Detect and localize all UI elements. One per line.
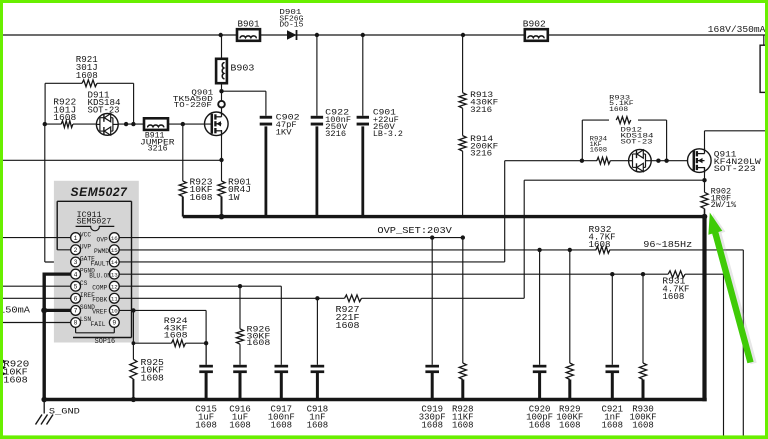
svg-text:OVP: OVP — [97, 237, 108, 244]
svg-text:B901: B901 — [238, 19, 260, 29]
wire: OVP row pin 16 — [119, 235, 465, 239]
node: 168V/350mA label — [708, 24, 766, 35]
wire: PGND thick stub pin 4 — [43, 273, 76, 276]
svg-text:1608: 1608 — [195, 420, 217, 430]
op-amp U1 IC911 body outline — [57, 201, 131, 346]
svg-text:3216: 3216 — [148, 144, 168, 154]
resistor R902 — [701, 188, 736, 217]
svg-text:1608: 1608 — [589, 240, 611, 250]
resistor R925 — [130, 310, 164, 402]
svg-text:B903: B903 — [230, 63, 254, 73]
svg-text:150mA: 150mA — [0, 304, 30, 315]
svg-text:7: 7 — [74, 308, 78, 315]
svg-text:1608: 1608 — [229, 420, 251, 430]
svg-text:SEM5027: SEM5027 — [71, 185, 129, 199]
wire: source column Q901 — [219, 130, 223, 181]
svg-text:11: 11 — [111, 296, 118, 303]
capacitor C919 — [419, 238, 446, 431]
svg-text:1608: 1608 — [452, 420, 474, 430]
wire: PWMD row pin 15 — [119, 248, 743, 436]
svg-text:168V/350mA: 168V/350mA — [708, 24, 766, 35]
wire: 168V top rail — [0, 33, 768, 37]
svg-text:1: 1 — [74, 235, 78, 242]
capacitor C922 — [311, 35, 351, 217]
svg-text:FAIL: FAIL — [91, 321, 106, 328]
resistor R932 — [589, 225, 616, 254]
wire: LSN row pin 8 — [0, 322, 76, 324]
svg-text:1608: 1608 — [141, 373, 164, 383]
svg-text:1W: 1W — [228, 193, 240, 203]
wire: R924 branch row — [132, 341, 207, 345]
annotation arrow pointing at R902 — [708, 213, 756, 365]
wire: secondary ground rail (thick bottom) — [41, 397, 706, 403]
svg-text:FAULT: FAULT — [91, 260, 110, 267]
svg-text:1608: 1608 — [559, 420, 581, 430]
svg-text:4: 4 — [74, 271, 78, 278]
resistor R921 — [76, 55, 98, 86]
svg-text:BLU.ON: BLU.ON — [89, 272, 111, 279]
ferrite bead B911 — [140, 118, 175, 153]
pin name labels — [80, 231, 111, 328]
svg-text:1608: 1608 — [190, 193, 213, 203]
resistor R922 — [53, 97, 76, 127]
wire: S-GND bus (thick) — [43, 273, 46, 402]
diode D911 — [88, 90, 121, 135]
svg-text:COMP: COMP — [92, 285, 107, 292]
resistor R920 (clipped at edge) — [0, 359, 29, 385]
capacitor C916 — [229, 365, 251, 431]
resistor R930 — [629, 274, 656, 430]
wire: GATE vertical to pin 3 — [45, 124, 71, 262]
svg-text:1608: 1608 — [307, 420, 329, 430]
svg-text:12: 12 — [111, 283, 118, 290]
capacitor C918 — [307, 298, 329, 430]
ferrite bead B901 — [237, 19, 260, 41]
svg-text:1608: 1608 — [632, 420, 654, 430]
wire: current sense row from left edge — [0, 159, 222, 161]
svg-text:1608: 1608 — [421, 420, 443, 430]
capacitor C921 — [601, 274, 623, 430]
resistor R933 — [609, 94, 634, 123]
svg-text:VREF: VREF — [92, 309, 107, 316]
op-amp U1 IC911 pins — [71, 233, 120, 328]
wire: primary ground rail (thick) — [183, 214, 708, 220]
node: 96~185Hz — [643, 239, 692, 250]
wire: gate loop top (R921 branch) — [45, 83, 134, 124]
svg-text:3216: 3216 — [325, 130, 346, 139]
svg-text:B902: B902 — [523, 20, 546, 30]
resistor R914 — [459, 108, 498, 216]
svg-text:LB-3.2: LB-3.2 — [373, 130, 403, 139]
svg-text:SOP16: SOP16 — [95, 338, 116, 346]
svg-text:6: 6 — [74, 296, 78, 303]
svg-text:VCC: VCC — [80, 231, 91, 238]
svg-text:1608: 1608 — [53, 113, 76, 123]
svg-text:SOT-23: SOT-23 — [88, 106, 120, 116]
wire: IREF row pin 6 — [0, 297, 76, 299]
capacitor C917 — [268, 286, 295, 430]
ground S_GND — [36, 400, 80, 425]
svg-text:1608: 1608 — [590, 146, 608, 153]
svg-text:UVP: UVP — [80, 243, 91, 250]
transistor Q911 — [688, 148, 762, 174]
svg-text:1608: 1608 — [529, 420, 551, 430]
resistor R929 — [556, 250, 583, 430]
svg-text:1608: 1608 — [662, 292, 684, 302]
capacitor C902 — [260, 114, 300, 217]
resistor R926 — [236, 286, 270, 365]
resistor R913 — [459, 35, 498, 115]
svg-text:1608: 1608 — [247, 339, 271, 348]
pin circle Q901 drain — [218, 101, 225, 108]
wire: VREF row pin 10 — [119, 308, 208, 365]
diode D912 — [621, 127, 654, 172]
svg-text:1608: 1608 — [270, 420, 292, 430]
capacitor C920 — [526, 250, 553, 430]
svg-text:1608: 1608 — [336, 321, 360, 331]
wire: fault/gate-drive row — [505, 159, 694, 163]
wire: gate row — [43, 122, 212, 126]
ferrite bead B903 — [216, 59, 254, 83]
svg-text:TO-220F: TO-220F — [174, 102, 212, 110]
resistor R931 — [662, 271, 689, 302]
svg-text:15: 15 — [111, 247, 118, 254]
svg-text:2: 2 — [74, 247, 78, 254]
wire: UVP stub pin 2 — [57, 249, 75, 251]
node: 350mA label — [0, 304, 30, 315]
resistor R924 — [164, 317, 188, 346]
svg-text:1KV: 1KV — [276, 129, 292, 138]
svg-text:SEM5027: SEM5027 — [77, 218, 112, 227]
svg-text:PWMD: PWMD — [94, 248, 109, 255]
svg-text:14: 14 — [111, 259, 118, 266]
capacitor C901 — [357, 35, 403, 217]
svg-text:SOT-223: SOT-223 — [714, 165, 756, 174]
capacitor C915 — [195, 343, 217, 430]
wire: FAIL U-link pins 8-9 — [76, 327, 115, 332]
wire: CS row pin 5 — [0, 285, 76, 287]
wire: drain column Q901 / B903 — [219, 35, 223, 117]
svg-text:CS: CS — [80, 280, 88, 287]
ferrite bead B902 — [523, 20, 548, 41]
svg-text:5: 5 — [74, 283, 78, 290]
svg-text:1608: 1608 — [76, 71, 98, 81]
resistor R928 — [452, 238, 474, 431]
svg-text:96~185Hz: 96~185Hz — [643, 239, 692, 250]
wire: R933 loop — [582, 120, 666, 161]
svg-text:SOT-23: SOT-23 — [621, 138, 653, 145]
diode D901 — [279, 9, 303, 40]
IC U-block background SEM5027 — [54, 181, 139, 343]
svg-text:13: 13 — [111, 271, 118, 278]
svg-text:DO-15: DO-15 — [279, 22, 303, 30]
svg-text:9: 9 — [112, 320, 116, 327]
svg-text:1608: 1608 — [609, 106, 628, 113]
wire: SGND thick stub pin 7 — [41, 307, 75, 313]
svg-text:OVP_SET:203V: OVP_SET:203V — [377, 225, 452, 236]
svg-text:1608: 1608 — [3, 376, 27, 386]
svg-text:3216: 3216 — [470, 149, 492, 159]
wire: ground loop right edge (thick) — [702, 217, 706, 402]
wire: C902 top branch — [222, 91, 266, 116]
node: OVP_SET:203V — [377, 225, 452, 236]
transistor Q901 — [173, 89, 228, 136]
wire: BLU.ON row pin 13 — [119, 272, 723, 436]
connector stub at right edge — [760, 35, 768, 92]
svg-text:FDBK: FDBK — [92, 297, 107, 304]
svg-text:3: 3 — [74, 259, 78, 266]
svg-text:3216: 3216 — [470, 105, 492, 115]
svg-text:16: 16 — [111, 235, 118, 242]
svg-text:2W/1%: 2W/1% — [711, 201, 737, 210]
resistor R934 — [590, 136, 611, 165]
wire: COMP row pin 12 — [119, 284, 281, 288]
svg-text:1608: 1608 — [601, 420, 623, 430]
svg-text:1608: 1608 — [164, 331, 188, 340]
resistor R901 — [218, 177, 251, 216]
wire: R923 column — [182, 124, 184, 181]
wire: Q911 source / current sense node — [702, 167, 706, 192]
resistor R927 — [336, 295, 362, 331]
wire: FAULT row pin 14 — [119, 161, 505, 262]
svg-text:8: 8 — [74, 320, 78, 327]
wire: FDBK row pin 11 — [119, 180, 524, 300]
wire: VCC row pin 1 — [0, 237, 76, 239]
resistor R923 — [179, 177, 212, 216]
wire: feedback link row — [524, 179, 704, 181]
wire: Q911 drain to transformer — [705, 131, 768, 150]
svg-text:10: 10 — [111, 308, 118, 315]
